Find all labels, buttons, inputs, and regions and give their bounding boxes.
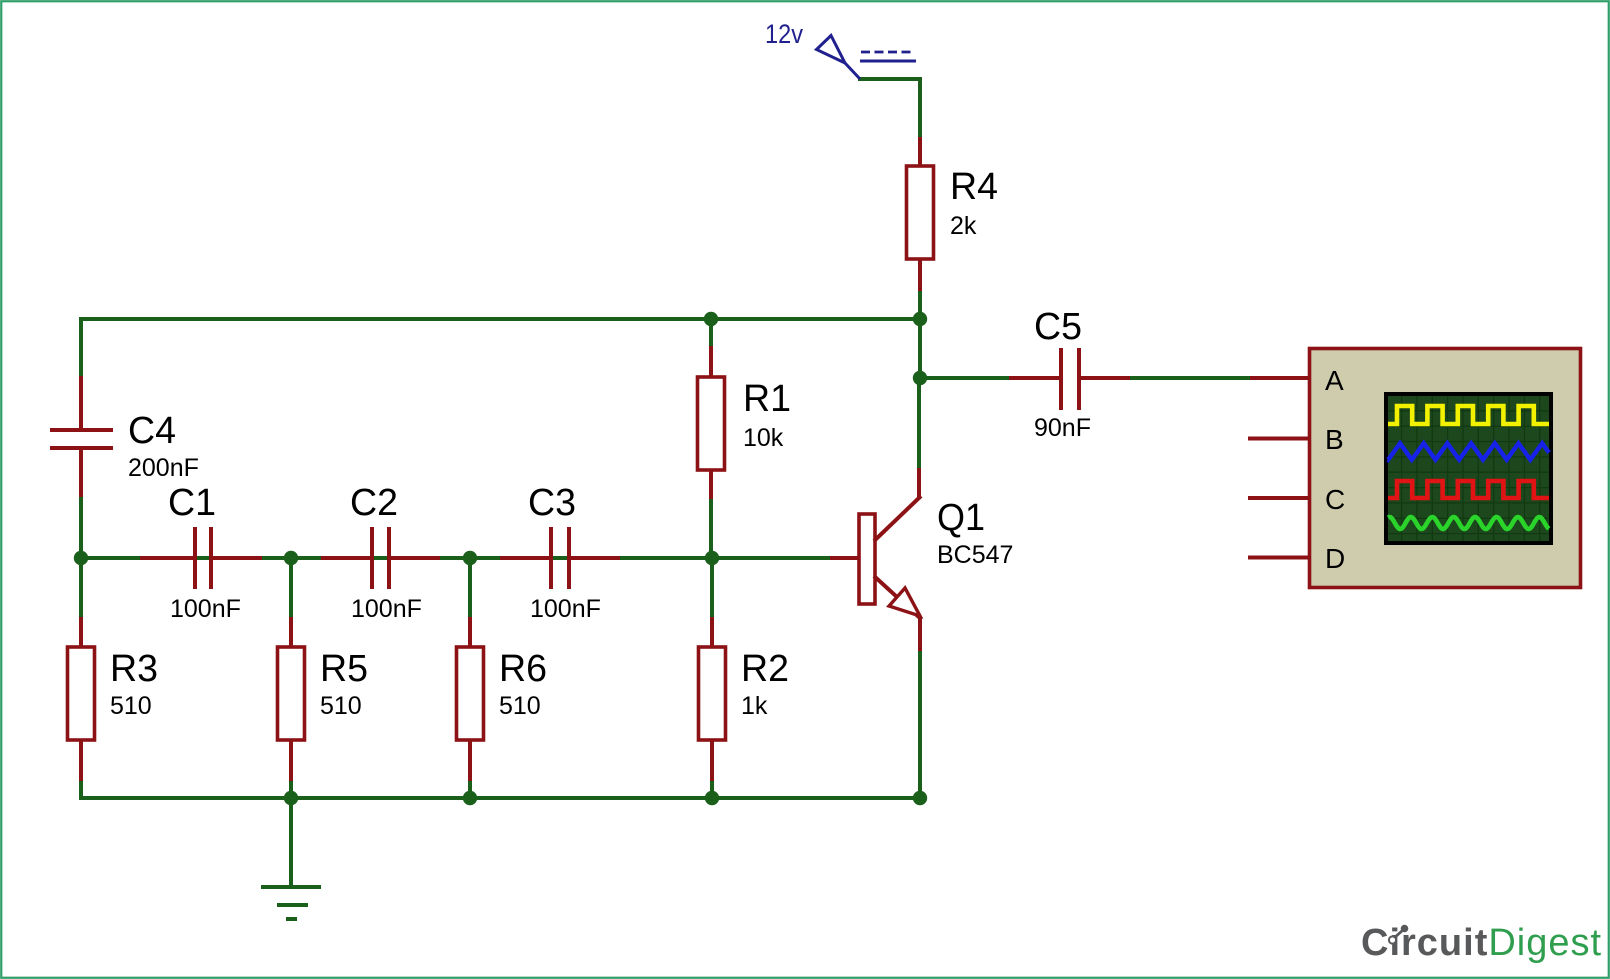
capacitor C1 — [195, 527, 211, 589]
capacitor C3 — [551, 527, 569, 589]
junction collector / C5 branch — [913, 371, 927, 385]
svg-text:C1: C1 — [168, 482, 216, 524]
svg-text:R5: R5 — [320, 648, 368, 690]
C3 label — [528, 482, 576, 524]
svg-text:10k: 10k — [743, 424, 784, 452]
wire top rail to R1 — [709, 319, 713, 347]
wire R5 bottom pin (red) — [289, 740, 293, 782]
svg-text:BC547: BC547 — [937, 541, 1013, 569]
oscilloscope body — [1310, 349, 1581, 588]
resistor R1 — [698, 377, 725, 470]
wire C2 right pin (red) — [391, 556, 440, 560]
svg-text:R6: R6 — [499, 648, 547, 690]
C5 label — [1034, 306, 1082, 348]
wire R4 top pin (red) — [918, 137, 922, 167]
wire R2 to bottom rail — [710, 781, 714, 800]
wire emitter to bottom rail — [918, 651, 922, 800]
resistor R5 — [278, 647, 305, 740]
svg-text:C4: C4 — [128, 410, 176, 452]
capacitor C5 — [1061, 348, 1079, 410]
resistor R6 — [457, 647, 484, 740]
wire left rail upper — [79, 317, 83, 377]
junction bottom rail / R6 — [463, 791, 477, 805]
R3 label — [110, 648, 158, 690]
wire C5 to oscilloscope — [1130, 376, 1251, 380]
svg-text:1k: 1k — [741, 692, 768, 720]
R2 value 1k — [741, 692, 768, 720]
svg-text:B: B — [1325, 424, 1344, 455]
Q1 emitter diagonal with arrow (red) — [874, 576, 921, 619]
oscilloscope pin A lead (red) — [1250, 376, 1309, 380]
C1 label — [168, 482, 216, 524]
junction top rail / R1 — [704, 312, 718, 326]
Q1 emitter lead (red) — [918, 617, 922, 652]
Q1 collector diagonal (red) — [874, 467, 921, 541]
wire R3 to bottom rail — [79, 781, 83, 800]
R6 value 510 — [499, 692, 541, 720]
waveform channel D (green sine wave) — [1388, 517, 1549, 529]
svg-text:R3: R3 — [110, 648, 158, 690]
svg-text:510: 510 — [499, 692, 541, 720]
svg-text:R4: R4 — [950, 166, 998, 208]
R4 value 2k — [950, 212, 977, 240]
wire R1 top pin (red) — [709, 346, 713, 378]
oscilloscope screen — [1384, 392, 1553, 545]
junction ladder / C4 / R3 — [74, 551, 88, 565]
oscilloscope pin C lead — [1248, 496, 1309, 500]
wire to ground symbol — [289, 798, 293, 888]
waveform channel B (blue sine wave) — [1388, 443, 1549, 459]
wire R1 bottom pin (red) — [709, 470, 713, 500]
R5 value 510 — [320, 692, 362, 720]
capacitor C2 — [372, 527, 389, 589]
wire R6 top pin (red) — [468, 617, 472, 648]
junction bottom rail / emitter corner — [913, 791, 927, 805]
wire collector to junction — [917, 378, 921, 468]
svg-text:100nF: 100nF — [351, 595, 422, 623]
svg-text:510: 510 — [320, 692, 362, 720]
wire top rail — [79, 317, 922, 321]
wire C1 left pin (red) — [140, 556, 193, 560]
wire collector junction to C5 — [920, 376, 1010, 380]
svg-text:C5: C5 — [1034, 306, 1082, 348]
svg-text:C3: C3 — [528, 482, 576, 524]
wire ladder to R6 — [468, 558, 472, 618]
wire R3 bottom pin (red) — [79, 740, 83, 782]
junction bottom rail / R2 — [705, 791, 719, 805]
R1 label — [743, 378, 791, 420]
junction ladder / R6 — [463, 551, 477, 565]
wire VCC from 12v terminal to R4 top — [858, 77, 922, 138]
svg-text:A: A — [1325, 365, 1344, 396]
ground — [261, 887, 321, 919]
junction bottom rail / R5 / ground — [284, 791, 298, 805]
Q1 part number BC547 — [937, 541, 1013, 569]
svg-text:510: 510 — [110, 692, 152, 720]
wire C4 bottom pin (red) — [79, 448, 83, 498]
C2 label — [350, 482, 398, 524]
wire C2 left pin (red) — [321, 556, 370, 560]
wire Q1 base pin (red) — [830, 556, 859, 560]
transistor Q1 base bar — [859, 514, 875, 604]
C3 value 100nF — [530, 595, 601, 623]
C5 value 90nF — [1034, 414, 1091, 442]
svg-text:100nF: 100nF — [530, 595, 601, 623]
C2 value 100nF — [351, 595, 422, 623]
oscilloscope pin B lead — [1248, 437, 1309, 441]
wire ladder to R2 — [710, 558, 714, 618]
12v label — [765, 19, 803, 49]
R6 label — [499, 648, 547, 690]
wire R2 top pin (red) — [710, 617, 714, 648]
resistor R4 — [907, 166, 934, 259]
svg-text:Q1: Q1 — [937, 497, 985, 539]
svg-text:90nF: 90nF — [1034, 414, 1091, 442]
wire R1 to ladder — [709, 499, 713, 558]
wire R3 top pin (red) — [79, 617, 83, 648]
wire R4 bottom pin (red) — [918, 259, 922, 292]
junction ladder / R1 / R2 / base — [705, 551, 719, 565]
junction top rail / collector — [913, 312, 927, 326]
svg-text:12v: 12v — [765, 19, 803, 49]
oscilloscope pin label D — [1325, 543, 1345, 574]
power terminal 12v — [817, 36, 917, 80]
oscilloscope pin label C — [1325, 484, 1345, 515]
oscilloscope pin D lead — [1248, 556, 1309, 560]
wire R5 top pin (red) — [289, 617, 293, 648]
wire ladder rail (oscillator feedback net) — [81, 556, 830, 560]
svg-text:100nF: 100nF — [170, 595, 241, 623]
R2 label — [741, 648, 789, 690]
svg-text:D: D — [1325, 543, 1345, 574]
wire C3 right pin (red) — [571, 556, 620, 560]
wire R2 bottom pin (red) — [710, 740, 714, 782]
R5 label — [320, 648, 368, 690]
wire C5 left pin (red) — [1009, 376, 1059, 380]
oscilloscope pin label A — [1325, 365, 1344, 396]
R1 value 10k — [743, 424, 784, 452]
wire R4 to top rail — [918, 291, 922, 321]
C4 value 200nF — [128, 454, 199, 482]
oscilloscope pin label B — [1325, 424, 1344, 455]
svg-text:R2: R2 — [741, 648, 789, 690]
C1 value 100nF — [170, 595, 241, 623]
wire ladder to R3 — [79, 558, 83, 618]
wire bottom rail (ground net) — [79, 796, 922, 800]
svg-text:CircuitDigest: CircuitDigest — [1361, 922, 1602, 964]
wire collector junction to top rail junction — [918, 319, 922, 378]
Q1 label — [937, 497, 985, 539]
wire R6 to bottom rail — [468, 781, 472, 800]
wire ladder to R5 — [289, 558, 293, 618]
resistor R3 — [68, 647, 95, 740]
wire C3 left pin (red) — [500, 556, 549, 560]
wire R6 bottom pin (red) — [468, 740, 472, 782]
svg-text:2k: 2k — [950, 212, 977, 240]
capacitor C4 — [50, 430, 113, 448]
svg-text:C2: C2 — [350, 482, 398, 524]
resistor R2 — [699, 647, 726, 740]
waveform channel C (red square wave) — [1388, 481, 1549, 498]
wire C4 to ladder rail — [79, 497, 83, 560]
wire C1 right pin (red) — [213, 556, 262, 560]
wire C5 right pin (red) — [1081, 376, 1131, 380]
svg-text:R1: R1 — [743, 378, 791, 420]
wire C4 top pin (red) — [79, 376, 83, 430]
waveform channel A (yellow square wave) — [1388, 406, 1549, 424]
CircuitDigest logo — [1361, 922, 1602, 964]
svg-text:200nF: 200nF — [128, 454, 199, 482]
R3 value 510 — [110, 692, 152, 720]
wire R5 to bottom rail — [289, 781, 293, 800]
junction ladder / R5 — [284, 551, 298, 565]
R4 label — [950, 166, 998, 208]
svg-text:C: C — [1325, 484, 1345, 515]
C4 label — [128, 410, 176, 452]
